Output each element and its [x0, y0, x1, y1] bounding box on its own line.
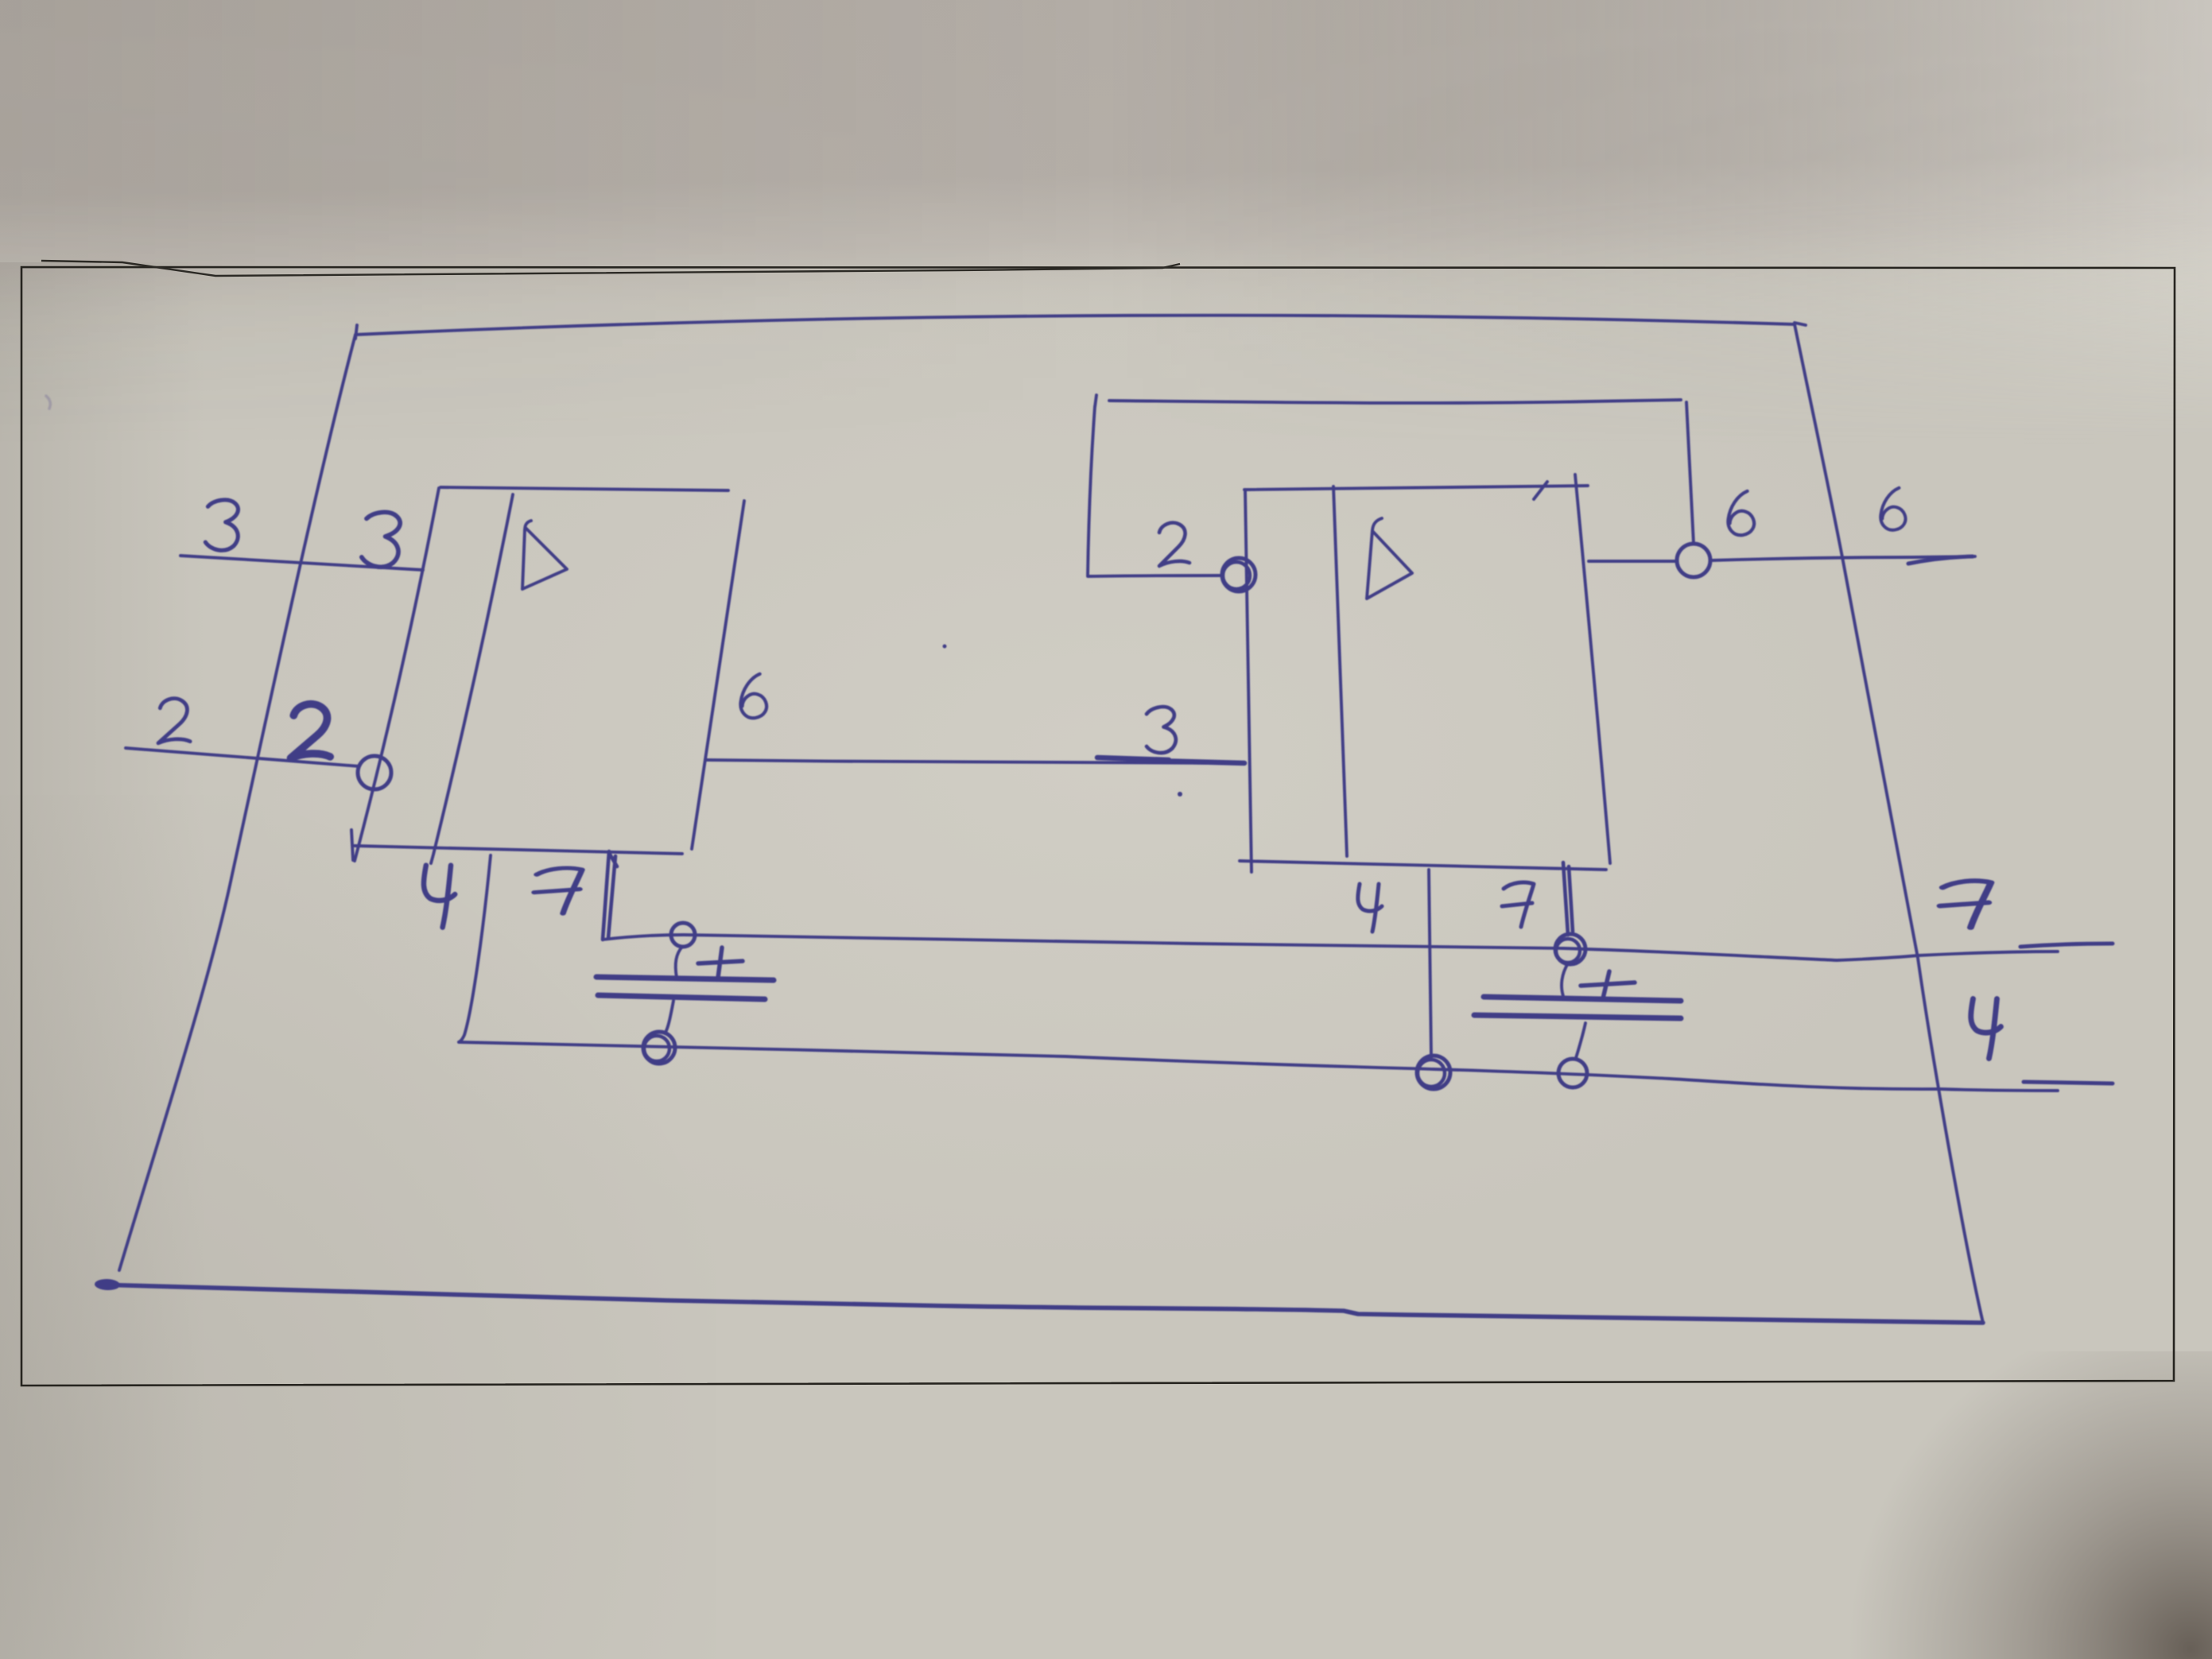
pin 7 stub U1 (doubled) — [603, 851, 617, 940]
node 7-rail junction at C1 — [671, 923, 695, 947]
C1 bottom lead — [665, 1001, 673, 1033]
pin 4 label U1 — [424, 866, 455, 928]
pin 7 label right margin — [1940, 881, 1991, 928]
pin 2 label U2 — [1159, 523, 1189, 566]
wire 4 rail end dash — [2024, 1082, 2113, 1083]
faint smudge — [46, 396, 50, 409]
pin 2 wire U1 — [126, 748, 359, 766]
ink dot B — [1178, 792, 1182, 797]
pin 3 label inner U1 — [361, 510, 403, 569]
wire bottom bus — [95, 1278, 120, 1290]
capacitor C2 plates — [1474, 997, 1681, 1018]
IC U1 body bottom edge — [351, 830, 682, 860]
wire right bus (slanted) — [1795, 324, 1983, 1323]
C2 top lead — [1562, 963, 1568, 996]
IC U1 internal divider — [431, 494, 513, 863]
wire pin 6 U1 to pin 3 U2 — [705, 760, 1224, 763]
op-amp triangle U1 — [522, 521, 567, 589]
pin 3 wire U1 — [180, 556, 423, 570]
wire pin2 feedback loop U2 — [1088, 395, 1694, 576]
IC U1 body top edge — [440, 487, 728, 490]
hand-drawn frame stroke — [41, 261, 1180, 276]
pin 6 label right — [1880, 488, 1905, 530]
node 7-rail junction at C2 (bold) — [1555, 934, 1585, 964]
wire 4 rail — [459, 1042, 2058, 1091]
node 4-rail junction at U2 pin4 (bold) — [1417, 1056, 1450, 1089]
pin 4 label right margin — [1971, 999, 2001, 1059]
IC U2 body bottom edge — [1240, 861, 1606, 870]
pin 4 stub U2 — [1429, 870, 1431, 1057]
C2 bottom lead — [1576, 1023, 1585, 1058]
C1 polarity plus — [698, 948, 743, 978]
wire left bus (slanted) — [119, 335, 355, 1270]
node 4-rail junction at C1 (bold) — [643, 1032, 675, 1064]
pin 4 stub U1 — [459, 855, 491, 1042]
IC U2 body left edge — [1245, 490, 1252, 872]
pin 6 end dash — [1908, 556, 1973, 564]
pin 2 terminal circle U1 — [358, 756, 391, 789]
C2 polarity plus — [1581, 971, 1635, 998]
pin 3 label outer U1 — [205, 498, 241, 551]
capacitor C1 plates — [596, 977, 774, 999]
IC U1 body left edge — [355, 488, 439, 861]
IC U2 internal divider — [1333, 486, 1347, 856]
pin 3 label U2 — [1147, 707, 1176, 753]
border frame — [21, 267, 2175, 1386]
pin 7 stub U2 (doubled) — [1563, 862, 1573, 935]
pin 2 label inner U1 (bold) — [291, 703, 334, 761]
wire 7 rail — [603, 935, 2058, 960]
pin 6 label left — [1728, 491, 1754, 535]
pin 6 wire U2 — [1589, 556, 1975, 561]
node 4-rail junction at C2 — [1558, 1059, 1587, 1087]
C1 top lead — [676, 947, 682, 978]
wire top supply bus — [355, 316, 1806, 339]
pin 3 stub overlap U2 — [1097, 758, 1244, 763]
IC U2 body top edge — [1244, 482, 1588, 499]
pin 4 label U2 — [1358, 884, 1382, 932]
IC U1 body right edge — [692, 501, 744, 849]
wire 7 rail end dash — [2020, 944, 2113, 947]
pin 6 label U1 — [740, 674, 766, 718]
pin 2 label outer U1 — [158, 698, 192, 745]
node pin6 junction U2 — [1677, 544, 1710, 577]
pin 7 label U2 — [1502, 882, 1534, 927]
pin 7 label U1 — [534, 868, 582, 913]
op-amp triangle U2 — [1367, 518, 1412, 599]
pin 2 terminal circle U2 (bold) — [1222, 558, 1255, 591]
IC U2 body right edge — [1575, 475, 1610, 863]
ink dot A — [943, 645, 947, 649]
